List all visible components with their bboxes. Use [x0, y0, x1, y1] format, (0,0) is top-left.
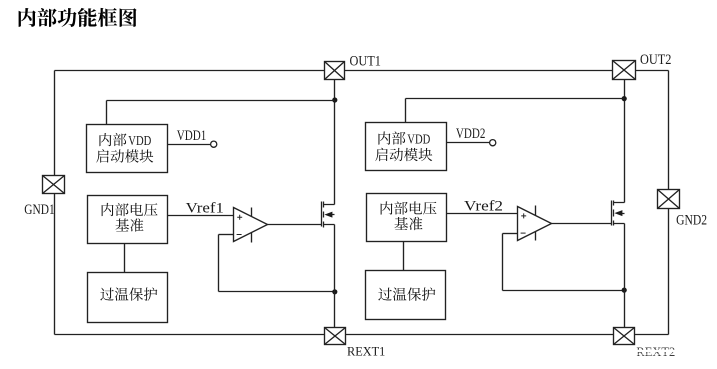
label: 内部电压: [102, 203, 158, 216]
wire: source vertical to REXT1: [334, 225, 336, 328]
wire: right rail vertical (through GND2): [668, 71, 670, 335]
node: junction below OUT1: [332, 97, 337, 102]
svg-text:VDD: VDD: [128, 133, 151, 148]
transistor Q2 body arrow: [614, 210, 622, 216]
label: 基准: [115, 218, 143, 231]
pad GND2: [658, 190, 680, 209]
svg-text:VDD2: VDD2: [456, 126, 486, 142]
pad REXT1: [325, 328, 346, 345]
label: 启动模块 line2: [96, 149, 153, 163]
node: junction below OUT2: [622, 96, 627, 101]
node: source junction left: [332, 289, 337, 294]
label: 内部VDD line1: [99, 133, 126, 146]
wire: feedback 2 vertical: [502, 234, 504, 291]
terminal: VDD2 open circle: [490, 140, 496, 146]
block U5: internal voltage reference box 2: [367, 194, 447, 242]
wire: top rail OUT1 to left: [55, 70, 325, 72]
wire: OUT2 to right rail: [636, 70, 669, 72]
label: 内部电压 (2): [381, 201, 437, 214]
svg-text:VDD1: VDD1: [177, 128, 207, 144]
wire: source 2 vertical to REXT2: [624, 224, 626, 328]
strike artifact over REXT2: [635, 350, 676, 352]
pad REXT2: [614, 328, 635, 345]
wire: op-amp output to gate: [268, 224, 322, 226]
wire: reference box 2 to thermal box 2: [403, 242, 405, 271]
wire: OUT2 drain vertical: [624, 80, 626, 203]
label: 启动模块 line2 (2): [375, 148, 432, 162]
wire: OUT1 to OUT2 top link: [345, 70, 613, 72]
wire: VDD2 output: [447, 142, 490, 144]
svg-text:REXT1: REXT1: [347, 344, 385, 359]
wire: feedback 2 horizontal into inverting input: [503, 233, 518, 235]
title: 内部功能框图: [19, 8, 137, 27]
wire: bottom rail left segment: [55, 334, 325, 336]
wire: left GND rail vertical: [54, 71, 56, 335]
wire: VDD1 startup feed horizontal: [107, 100, 335, 102]
op-amp A2: [518, 206, 552, 241]
wire: bottom rail REXT1 to REXT2: [346, 334, 614, 336]
op-amp A1: [234, 208, 268, 243]
transistor Q2: pass NMOS: [612, 201, 625, 226]
pad GND1: [43, 176, 65, 194]
wire: reference box to thermal box: [124, 244, 126, 273]
wire: bottom rail REXT2 to right rail: [635, 334, 669, 336]
terminal: VDD1 open circle: [211, 141, 217, 147]
svg-text:Vref2: Vref2: [464, 199, 503, 215]
wire: Vref1 to op-amp: [168, 215, 234, 217]
svg-text:Vref1: Vref1: [186, 201, 224, 217]
pad OUT1: [325, 62, 345, 80]
wire: feedback bottom horizontal to source node: [219, 291, 335, 293]
label: 内部VDD line1 (2): [378, 131, 405, 144]
wire: feedback vertical: [218, 235, 220, 292]
wire: into startup box top: [106, 101, 108, 125]
wire: into startup box 2 top: [405, 99, 407, 123]
svg-text:OUT1: OUT1: [350, 54, 381, 70]
wire: op-amp 2 output to gate: [552, 223, 612, 225]
wire: Vref2 to op-amp 2: [447, 213, 518, 215]
label: 基准 (2): [394, 217, 422, 230]
svg-text:OUT2: OUT2: [640, 52, 671, 68]
label: 过温保护 (2): [378, 287, 435, 301]
transistor Q1 body arrow: [324, 212, 332, 218]
wire: VDD2 startup feed horizontal: [406, 98, 625, 100]
block U6: over-temperature protection box 2: [366, 271, 446, 320]
svg-text:VDD: VDD: [407, 132, 430, 147]
block U3: over-temperature protection box: [88, 273, 168, 323]
wire: OUT1 drain vertical: [334, 80, 336, 205]
svg-text:GND2: GND2: [676, 213, 707, 229]
block U1: internal VDD startup box: [87, 125, 168, 173]
pad OUT2: [613, 61, 636, 80]
svg-text:GND1: GND1: [24, 202, 54, 218]
block U4: internal VDD startup box 2: [366, 123, 447, 171]
wire: feedback 2 bottom horizontal to source node: [503, 290, 625, 292]
label: 过温保护: [100, 287, 157, 301]
wire: feedback horizontal into inverting input: [219, 234, 234, 236]
transistor Q1: pass NMOS: [322, 202, 335, 228]
node: source junction right: [622, 288, 627, 293]
wire: VDD1 output: [168, 144, 211, 146]
block U2: internal voltage reference box: [88, 196, 168, 244]
